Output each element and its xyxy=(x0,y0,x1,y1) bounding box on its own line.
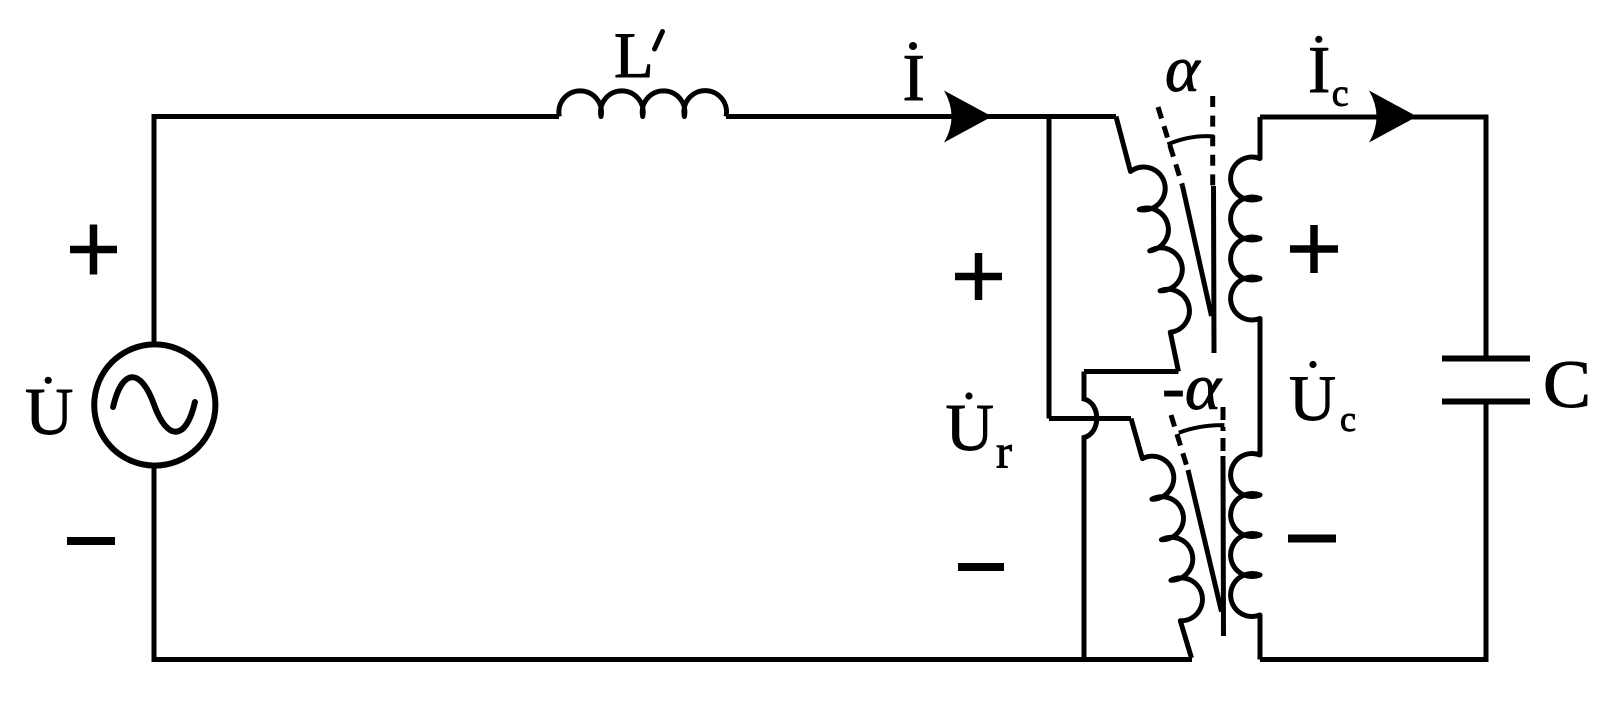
transformer T1 upper rotor winding (alpha) xyxy=(1116,117,1189,372)
dashed reference axis upper (vertical) xyxy=(1210,96,1215,186)
pointer upper reference (solid vertical) xyxy=(1211,186,1217,353)
wire top middle: inductor to upper rotor winding lead xyxy=(726,114,1116,119)
pointer upper rotor axis (solid slant) xyxy=(1183,186,1212,316)
dashed reference axis lower (vertical) xyxy=(1221,407,1226,456)
svg-text:C: C xyxy=(1543,346,1591,422)
dashed rotor axis upper (slant) xyxy=(1158,107,1183,186)
label minus source xyxy=(67,537,115,545)
wire bottom-left: left vertical lower + bottom horizontal xyxy=(154,465,1192,660)
svg-text:I: I xyxy=(1308,33,1330,107)
svg-text:α: α xyxy=(1165,33,1201,106)
label minus Uc xyxy=(1288,535,1336,543)
svg-text:-α: -α xyxy=(1162,351,1222,424)
label plus source xyxy=(70,225,117,275)
label I dot xyxy=(909,42,917,50)
svg-text:r: r xyxy=(996,426,1012,479)
wire: lower winding feed horizontal xyxy=(1049,416,1131,421)
label minus Ur xyxy=(958,563,1004,571)
label Ur dot xyxy=(965,392,972,399)
label L prime tick xyxy=(655,32,663,50)
inductor L1 (L') xyxy=(559,91,727,117)
svg-text:U: U xyxy=(25,375,73,449)
capacitor C1 bottom plate xyxy=(1442,399,1530,405)
wire top-right: secondary top to capacitor xyxy=(1260,117,1486,356)
label plus Uc xyxy=(1290,225,1338,273)
wire bottom-right: secondary bottom to capacitor xyxy=(1260,404,1486,660)
svg-text:U: U xyxy=(946,391,994,465)
dashed rotor axis lower (slant) xyxy=(1171,415,1188,470)
transformer T1 lower rotor winding (-alpha) xyxy=(1131,419,1202,659)
svg-text:c: c xyxy=(1340,399,1356,439)
capacitor C1 top plate xyxy=(1442,356,1530,362)
arrow current Ic xyxy=(1369,91,1417,143)
wire: upper winding return vertical with hop over feed wire xyxy=(1084,372,1097,658)
pointer lower reference (solid vertical) xyxy=(1221,456,1227,636)
wire top-left: left vertical upper + top horizontal to inductor xyxy=(154,117,559,344)
pointer lower rotor axis (solid slant) xyxy=(1188,470,1222,612)
svg-text:L: L xyxy=(614,20,654,92)
svg-text:I: I xyxy=(903,41,925,115)
ac source U xyxy=(94,344,215,465)
ac source sine symbol xyxy=(111,374,196,436)
wire: junction vertical at node A down to lower winding feed xyxy=(1047,117,1052,419)
transformer T1 secondary winding xyxy=(1231,117,1260,660)
label U dot xyxy=(45,377,52,384)
svg-text:U: U xyxy=(1289,363,1336,435)
angle arc alpha xyxy=(1168,136,1215,144)
label plus Ur xyxy=(955,253,1002,300)
wire: upper winding return horizontal xyxy=(1084,369,1179,374)
label Ic dot xyxy=(1315,36,1322,43)
arrow current I xyxy=(944,91,992,143)
angle arc -alpha xyxy=(1179,425,1225,433)
svg-text:c: c xyxy=(1332,73,1349,115)
label Uc dot xyxy=(1309,361,1316,368)
